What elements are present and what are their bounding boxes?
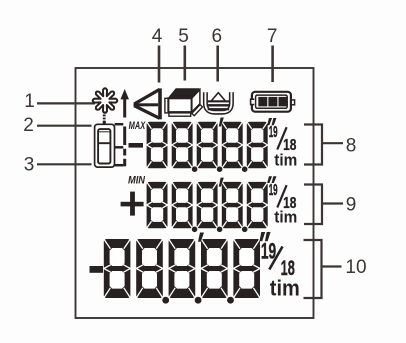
svg-text:MAX: MAX	[129, 120, 146, 132]
row2 decimal points	[192, 227, 248, 233]
row1 feet mark	[219, 118, 224, 127]
leader line 1	[37, 102, 95, 104]
leader line 5	[184, 46, 187, 81]
row2 inch marks	[267, 176, 276, 183]
svg-text:19: 19	[269, 124, 278, 141]
svg-text:5: 5	[178, 26, 189, 47]
row2 unit tim	[274, 208, 297, 226]
bracket callout 10	[304, 240, 342, 298]
row1 seven-segment digits 88888	[147, 122, 268, 168]
svg-text:tim: tim	[274, 151, 297, 169]
leader line 2	[37, 125, 92, 127]
callout number 2	[23, 115, 34, 136]
laser direction triangle icon (callout 4)	[134, 88, 162, 119]
svg-text:tim: tim	[270, 276, 300, 301]
svg-text:MIN: MIN	[128, 175, 146, 187]
row3 fraction 19/18	[261, 239, 295, 281]
svg-text:8: 8	[346, 136, 357, 157]
callout number 5	[178, 26, 189, 47]
row3 decimal points	[162, 297, 234, 304]
svg-text:9: 9	[346, 195, 357, 216]
row3 feet mark	[198, 233, 204, 242]
row3 minus sign	[90, 266, 104, 273]
row2 plus sign	[121, 192, 144, 216]
MIN label	[128, 175, 146, 187]
leader line 6	[216, 46, 219, 82]
callout number 3	[24, 155, 35, 176]
svg-text:tim: tim	[274, 208, 297, 226]
row1 unit tim	[274, 151, 297, 169]
bracket callout 9	[304, 185, 343, 225]
measuring reference scale arrow	[115, 89, 129, 166]
callout number 7	[267, 26, 278, 47]
row1 inch marks	[267, 118, 276, 125]
bracket callout 8	[304, 125, 343, 165]
laser antenna dashed line	[103, 112, 106, 126]
callout number 4	[152, 26, 163, 47]
callout number 1	[24, 91, 35, 112]
LCD outline frame	[76, 68, 314, 318]
row2 fraction 19/18	[269, 182, 297, 212]
callout number 6	[212, 26, 223, 47]
leader line 3	[37, 163, 92, 165]
svg-text:7: 7	[267, 26, 278, 47]
level container icon (callout 6)	[205, 92, 231, 112]
leader line 4	[158, 46, 161, 83]
MAX label	[129, 120, 146, 132]
row1 minus sign	[129, 143, 144, 148]
row1 decimal points	[192, 166, 248, 172]
callout number 8	[346, 136, 357, 157]
svg-text:1: 1	[24, 91, 35, 112]
svg-text:2: 2	[23, 115, 34, 136]
callout number 9	[346, 195, 357, 216]
battery icon (callout 7)	[249, 92, 294, 112]
3D box volume icon (callout 5)	[165, 89, 203, 116]
svg-text:10: 10	[345, 257, 366, 278]
row2 feet mark	[219, 178, 224, 187]
svg-text:4: 4	[152, 26, 163, 47]
row3 unit tim	[270, 276, 300, 301]
callout number 10	[345, 257, 366, 278]
svg-text:19: 19	[269, 182, 278, 199]
svg-text:3: 3	[24, 155, 35, 176]
svg-text:6: 6	[212, 26, 223, 47]
leader line 7	[271, 46, 274, 83]
distance meter device icon (callouts 2/3)	[95, 121, 115, 167]
row3 inch marks	[260, 232, 271, 241]
row2 seven-segment digits 88888	[147, 182, 268, 228]
row3 seven-segment digits 88888	[104, 239, 260, 298]
laser beam star icon (callout 1)	[93, 88, 118, 113]
row1 fraction 19/18	[269, 124, 297, 154]
